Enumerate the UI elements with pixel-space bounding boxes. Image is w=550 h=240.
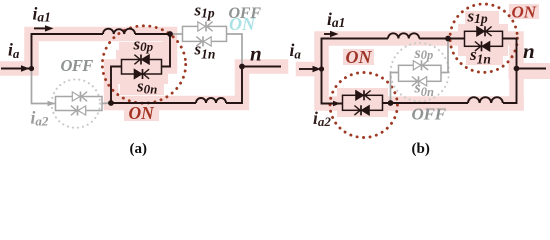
- switch cell S0 (a) frame: [122, 60, 162, 75]
- highlighted path output n (b): [517, 63, 549, 79]
- highlighted path top (b): [303, 39, 517, 104]
- highlight behind ON top label (b): [509, 4, 539, 19]
- arrowhead ia (a): [21, 65, 30, 71]
- grey dotted circle around S0 off (b): [391, 43, 449, 101]
- node top junction (b): [445, 36, 451, 42]
- arrowhead ia2 (b): [333, 101, 341, 107]
- svg-text:(b): (b): [412, 141, 430, 157]
- highlight behind s1p label (b): [465, 11, 499, 26]
- wire bottom up to node n (a): [226, 67, 281, 104]
- device off cell bottom (a): [71, 106, 86, 116]
- node top junction (a): [167, 31, 173, 37]
- switch cell S0 off (b) frame: [399, 65, 442, 81]
- arrow line ia1 (b): [324, 33, 332, 35]
- red dashed ellipse around S1 (b): [450, 4, 517, 72]
- node bottom junction (b): [388, 100, 394, 106]
- device ia2 top (b): [356, 90, 371, 100]
- grey dotted circle around off cell (a): [52, 79, 100, 127]
- wire node down to S0 right (a): [162, 34, 171, 67]
- highlight behind switch cell S0 (a): [116, 50, 168, 84]
- node n (b): [514, 66, 520, 72]
- off switch cell ia2 branch (a) frame: [56, 97, 103, 111]
- grey wire S1 to node n (a): [227, 34, 243, 64]
- inductor winding a2 (b): [468, 97, 503, 103]
- node input junction (b): [319, 66, 324, 71]
- grey arrowhead ia2 (a): [48, 101, 56, 107]
- wire input ia (b): [299, 68, 314, 70]
- wire node n output (b): [517, 68, 547, 70]
- svg-text:n: n: [250, 42, 262, 66]
- node input junction (a): [29, 66, 34, 71]
- grey wire S0 right up (b): [441, 39, 448, 73]
- device s0p diode-switch (a): [134, 55, 149, 65]
- highlight behind s1n label (b): [466, 48, 503, 65]
- arrowhead ia (b): [313, 66, 322, 72]
- arrowhead ia1 (b): [330, 31, 339, 37]
- wire S0 left down to bottom (a): [111, 67, 122, 104]
- svg-text:n: n: [523, 39, 535, 63]
- switch cell S1 off (a) frame: [183, 26, 227, 41]
- switch cell S1 on (b) frame: [465, 31, 503, 46]
- highlight behind S1 cell (b): [458, 24, 508, 56]
- red dashed ellipse around ia2 cell (b): [330, 73, 397, 138]
- grey wire to off cell ia2 (a): [32, 69, 56, 104]
- inductor winding a1 (a): [103, 29, 135, 34]
- highlighted conduction path (a): [1, 34, 281, 103]
- svg-text:ON: ON: [512, 3, 537, 22]
- device s1p (b): [477, 26, 492, 36]
- wire inductor to node (a): [135, 33, 170, 35]
- wire inductor to S1 (b): [419, 38, 464, 40]
- device s1p off (a): [198, 21, 213, 31]
- device s1n off (a): [196, 36, 211, 46]
- svg-text:ON: ON: [229, 14, 256, 34]
- wire input ia (a): [1, 68, 29, 70]
- device s1n (b): [475, 41, 490, 51]
- highlighted path bottom (b): [322, 69, 517, 104]
- device s0p off (b): [413, 60, 428, 70]
- arrowhead ia1 (a): [45, 25, 54, 31]
- switch cell ia2 on (b) frame: [343, 95, 383, 110]
- highlight behind ON label (a): [124, 104, 159, 121]
- grey wire off cell to node (a): [102, 102, 111, 105]
- node n (a): [239, 64, 245, 70]
- wire input node to top branch (a): [32, 34, 104, 69]
- svg-text:ON: ON: [346, 47, 373, 67]
- highlight behind label s0p (a): [119, 42, 164, 58]
- grey wire S0 left down (b): [391, 73, 399, 104]
- device ia2 bottom (b): [354, 105, 369, 115]
- device s0n off (b): [412, 76, 427, 86]
- grey wire node to S1 cell (a): [170, 33, 183, 35]
- svg-text:OFF: OFF: [61, 56, 94, 75]
- wire bottom to inductor (a): [111, 102, 196, 104]
- svg-text:s0p: s0p: [414, 45, 434, 62]
- inductor winding a2 (a): [196, 98, 226, 103]
- wire up to top branch (b): [322, 39, 389, 70]
- highlight behind ia2 cell (b): [337, 88, 388, 117]
- wire down to ia2 cell (b): [322, 69, 343, 104]
- svg-text:(a): (a): [130, 141, 148, 157]
- red dashed ellipse around S0 cell (a): [102, 26, 185, 103]
- highlight behind label s0n (a): [120, 79, 164, 95]
- device off cell top (a): [72, 92, 87, 102]
- inductor winding a1 (b): [388, 33, 419, 38]
- wire S1 down to bottom (b): [503, 39, 517, 104]
- highlight behind ON left label (b): [343, 49, 374, 65]
- arrow line ia1 (a): [34, 27, 47, 29]
- wire ia2 cell to inductor (b): [383, 102, 469, 104]
- device s0n diode-switch (a): [134, 69, 149, 79]
- node bottom junction (a): [108, 100, 114, 106]
- svg-text:OFF: OFF: [412, 105, 447, 124]
- svg-text:ON: ON: [129, 103, 156, 123]
